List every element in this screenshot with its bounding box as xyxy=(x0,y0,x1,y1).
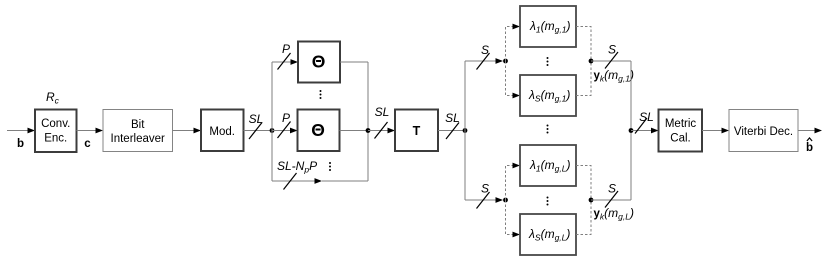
svg-text:Mod.: Mod. xyxy=(209,126,235,138)
dashed output wires lambda S,L xyxy=(576,200,591,235)
node F junction upper output xyxy=(589,59,594,64)
svg-text:S: S xyxy=(481,182,489,196)
svg-text:SL-NpP: SL-NpP xyxy=(277,159,317,175)
label SL after T xyxy=(445,111,460,125)
block U3 Mod. xyxy=(201,110,244,152)
svg-text:b: b xyxy=(806,142,813,154)
svg-text:Θ: Θ xyxy=(311,120,325,140)
block theta2 xyxy=(298,110,340,152)
svg-text:c: c xyxy=(84,138,91,150)
wire theta1 output xyxy=(340,61,368,63)
block U5 Viterbi Dec. xyxy=(729,110,798,152)
label S upper right xyxy=(608,43,616,57)
svg-text:yk(mg,L): yk(mg,L) xyxy=(594,206,634,222)
svg-text:Bit: Bit xyxy=(131,119,145,131)
dashed output wires lambda S,1 xyxy=(576,61,591,96)
dashed wires to lambda S,1 xyxy=(506,61,521,98)
label P mid xyxy=(282,111,290,125)
label S lower right xyxy=(608,182,616,196)
label SL before T xyxy=(375,105,390,119)
wire input b xyxy=(7,128,35,134)
svg-text:Metric: Metric xyxy=(665,118,697,130)
node H junction xyxy=(629,128,634,133)
svg-text:P: P xyxy=(282,42,290,56)
label yk mgL xyxy=(594,206,634,222)
node E junction lower xyxy=(503,198,508,203)
wire theta2 output xyxy=(340,130,369,132)
block T xyxy=(395,110,438,152)
wire vertical merge bus right xyxy=(630,61,632,200)
node A junction xyxy=(270,128,275,133)
svg-text:Interleaver: Interleaver xyxy=(111,133,166,145)
wire vertical bus at node A xyxy=(271,62,273,181)
block lambda S,L xyxy=(520,214,576,255)
block U1 Conv. Enc. xyxy=(35,110,77,153)
dots between lambda 1,L and S,L xyxy=(547,197,549,206)
svg-text:Cal.: Cal. xyxy=(670,133,690,145)
node c label xyxy=(84,138,91,150)
svg-text:Enc.: Enc. xyxy=(44,133,67,145)
block lambda S,1 xyxy=(520,75,576,116)
dots between theta blocks xyxy=(320,90,322,99)
wire to theta mid with P slash xyxy=(272,122,298,139)
svg-text:SL: SL xyxy=(445,111,460,125)
dashed wires to lambda S,L xyxy=(506,200,521,237)
svg-text:yk(mg,1): yk(mg,1) xyxy=(594,68,634,84)
label SL xyxy=(249,112,264,126)
block lambda 1,1 xyxy=(520,6,576,47)
wire vertical collect bus xyxy=(367,62,369,181)
svg-text:SL: SL xyxy=(375,105,390,119)
wire output b hat xyxy=(798,128,822,134)
dashed output wires lambda 1,1 xyxy=(576,27,591,62)
node D junction upper xyxy=(503,59,508,64)
svg-text:b: b xyxy=(17,138,24,150)
wire to lower group with S slash xyxy=(465,192,503,209)
wire metric to viterbi xyxy=(702,128,729,134)
label SL-NpP xyxy=(277,159,317,175)
node G junction lower output xyxy=(589,198,594,203)
node C junction xyxy=(463,128,468,133)
wire vertical split bus at node C xyxy=(464,61,466,200)
wire mod to node A with SL bus slash xyxy=(244,123,273,140)
block theta1 xyxy=(298,42,340,83)
wire upper output with S slash xyxy=(591,52,631,69)
svg-text:P: P xyxy=(282,111,290,125)
wire interleaver to mod xyxy=(173,128,202,134)
dashed wires to lambda 1,1 xyxy=(506,24,521,61)
node b hat label xyxy=(806,138,813,154)
wire to metric with SL slash xyxy=(631,118,659,134)
svg-text:Rc: Rc xyxy=(46,90,60,106)
dots between groups xyxy=(547,125,549,134)
svg-text:SL: SL xyxy=(639,110,654,124)
block lambda 1,L xyxy=(520,145,576,186)
wire bypass branch SL-NpP xyxy=(272,173,368,190)
wire c xyxy=(77,128,104,134)
wire to theta top with P slash xyxy=(272,53,298,70)
svg-text:S: S xyxy=(608,182,616,196)
label P top xyxy=(282,42,290,56)
block U2 Bit Interleaver xyxy=(103,110,173,152)
node b label xyxy=(17,138,24,150)
svg-text:Θ: Θ xyxy=(312,51,326,71)
svg-text:S: S xyxy=(608,43,616,57)
label S lower left xyxy=(481,182,489,196)
wire to T with SL slash xyxy=(368,122,395,139)
wire T to node C with SL slash xyxy=(438,123,465,140)
svg-text:T: T xyxy=(413,124,421,138)
svg-text:Viterbi Dec.: Viterbi Dec. xyxy=(734,126,793,138)
dots next to SL-NpP xyxy=(329,162,331,171)
dots between lambda 1,1 and S,1 xyxy=(547,57,549,66)
label yk mg1 xyxy=(594,68,634,84)
dashed wires to lambda 1,L xyxy=(506,163,521,200)
label Rc xyxy=(46,90,60,106)
svg-text:S: S xyxy=(481,43,489,57)
svg-text:Conv.: Conv. xyxy=(41,118,70,130)
label S upper left xyxy=(481,43,489,57)
dashed output wires lambda 1,L xyxy=(576,166,591,201)
wire to upper group with S slash xyxy=(465,53,503,70)
svg-text:SL: SL xyxy=(249,112,264,126)
wire lower output with S slash xyxy=(591,191,631,208)
label SL before metric xyxy=(639,110,654,124)
node B junction xyxy=(366,128,371,133)
block U4 Metric Cal. xyxy=(659,110,703,152)
